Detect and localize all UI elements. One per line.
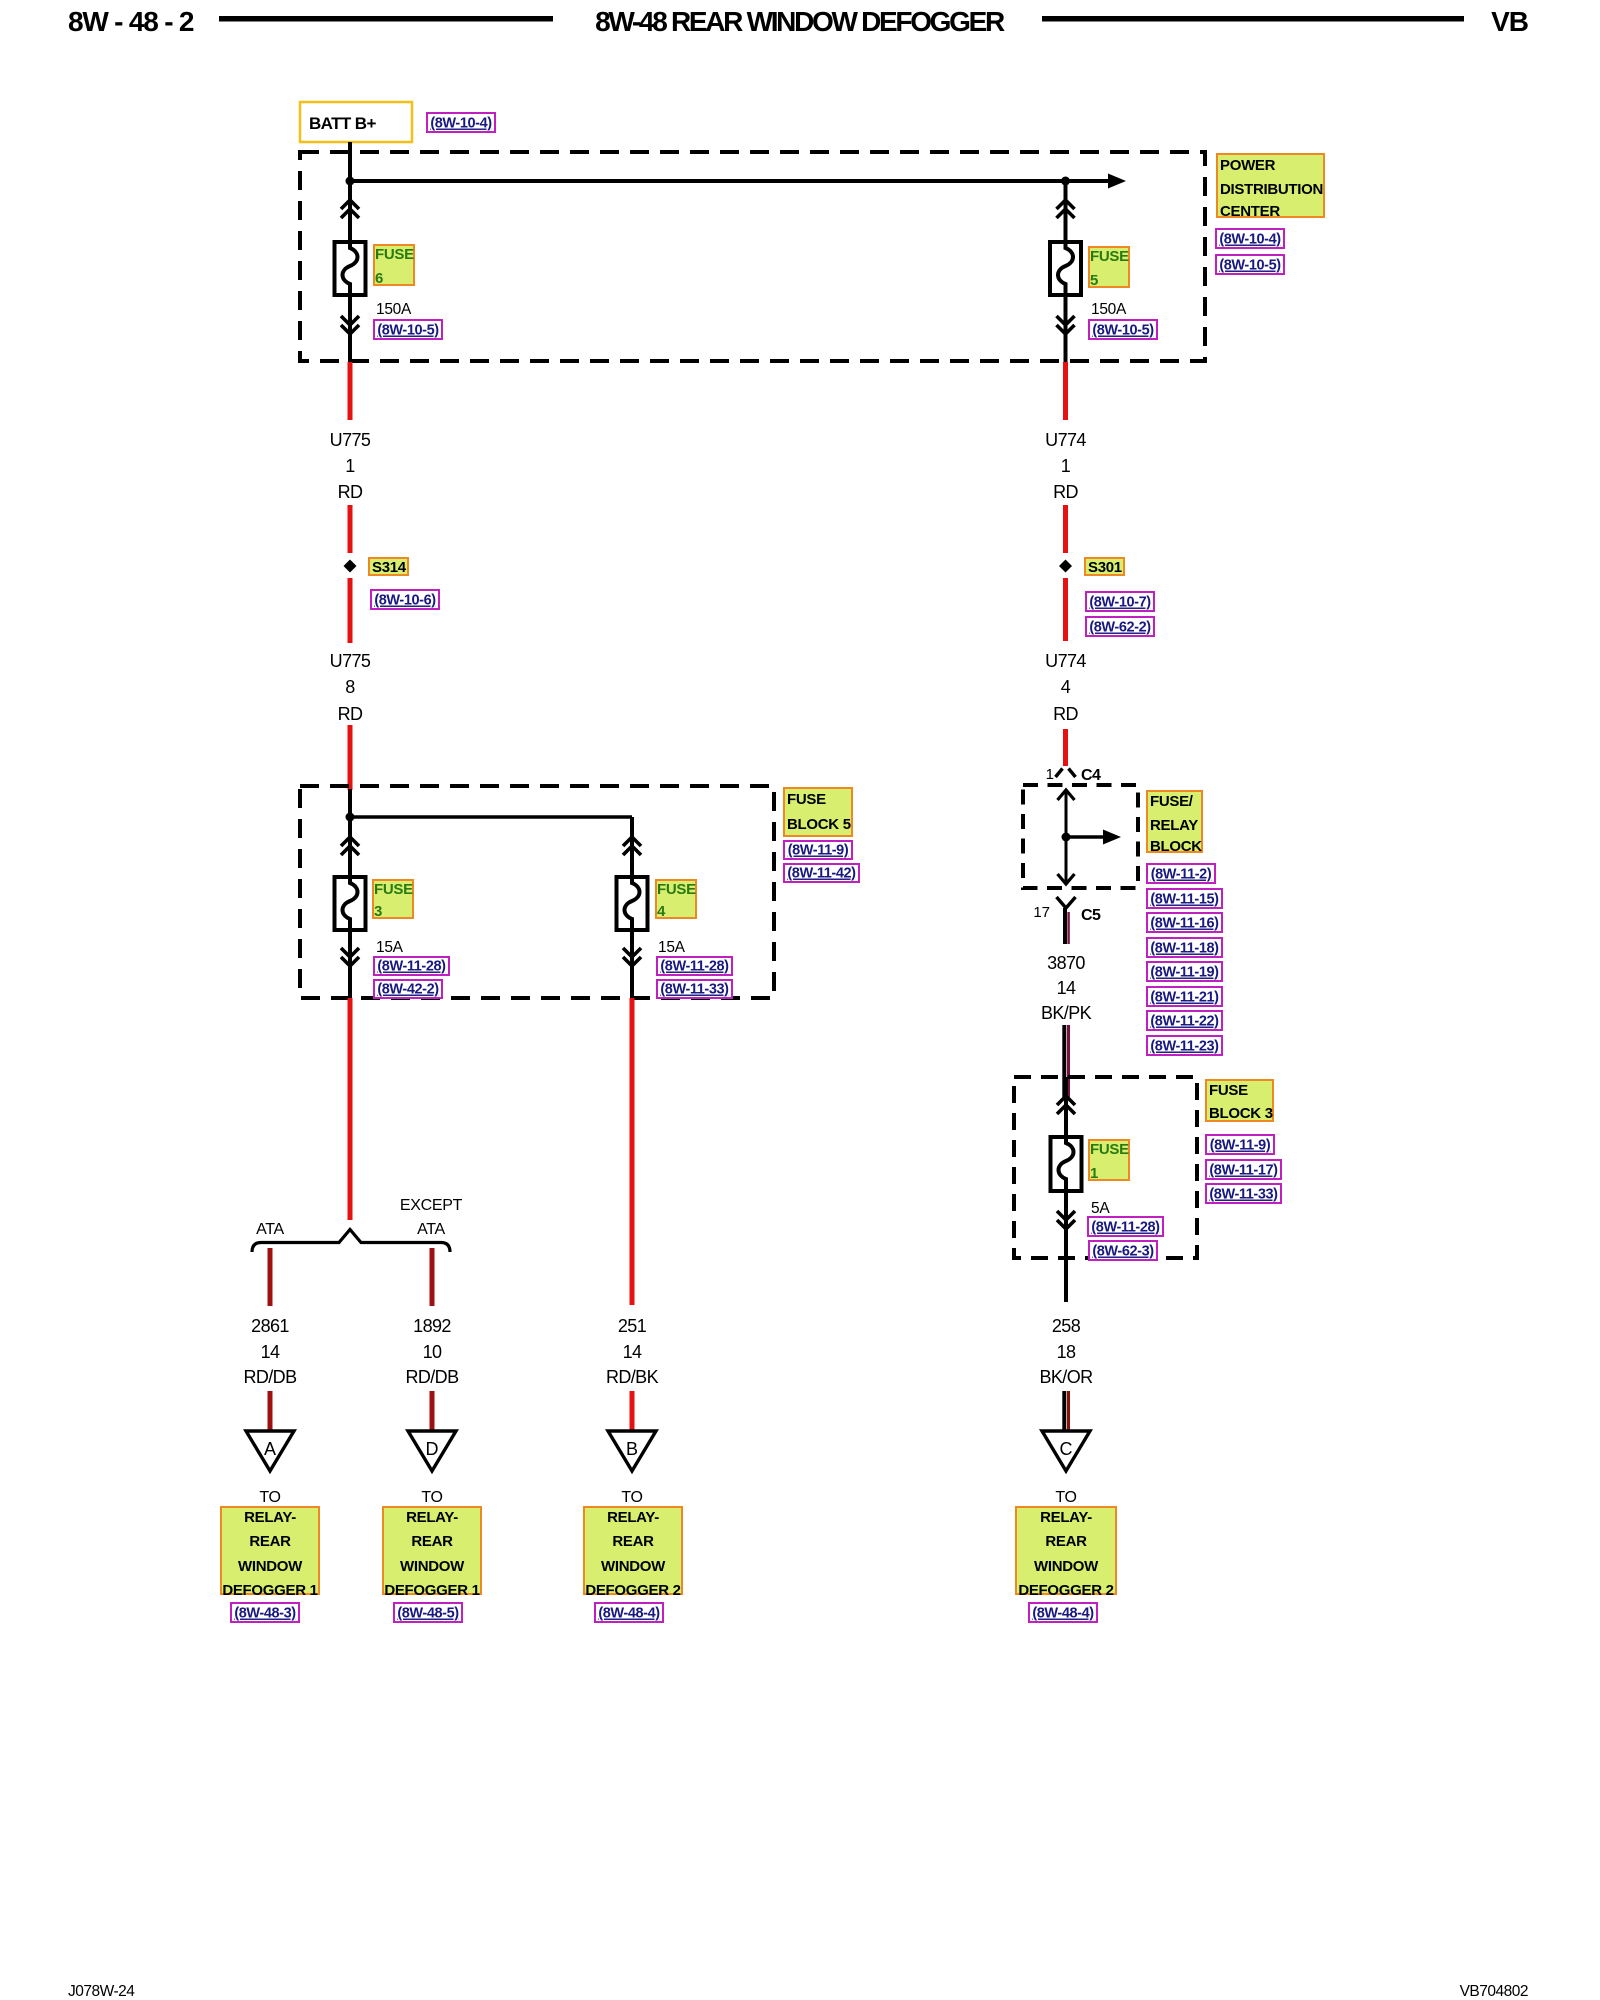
svg-text:(8W-11-21): (8W-11-21) — [1150, 990, 1219, 1006]
link (8W-48-3) col A — [231, 1603, 299, 1622]
svg-text:BK/PK: BK/PK — [1041, 1003, 1092, 1023]
svg-text:(8W-10-4): (8W-10-4) — [1219, 232, 1281, 248]
label POWER DISTRIBUTION CENTER — [1217, 154, 1324, 220]
svg-text:VB: VB — [1491, 6, 1528, 37]
junction dot in fuse block 5 — [346, 813, 355, 822]
fuse F1 — [1051, 1137, 1082, 1191]
svg-text:1: 1 — [1061, 456, 1071, 476]
fuse F4 — [617, 877, 648, 930]
svg-text:FUSE: FUSE — [787, 791, 826, 808]
fuse/relay block dashed box — [1023, 785, 1138, 888]
fuse F6 — [335, 242, 366, 295]
svg-text:U775: U775 — [330, 651, 371, 671]
wire BATT B+ down into PDC — [348, 142, 352, 184]
svg-text:(8W-62-3): (8W-62-3) — [1092, 1244, 1154, 1260]
svg-text:RELAY: RELAY — [1150, 817, 1198, 834]
svg-text:(8W-11-16): (8W-11-16) — [1150, 916, 1219, 932]
link (8W-48-5) col D — [394, 1603, 462, 1622]
svg-text:15A: 15A — [376, 939, 404, 956]
svg-text:ATA: ATA — [256, 1221, 284, 1238]
svg-text:RD/DB: RD/DB — [405, 1367, 459, 1387]
svg-text:B: B — [626, 1439, 638, 1459]
svg-text:(8W-11-18): (8W-11-18) — [1150, 941, 1219, 957]
fuse F3 — [335, 877, 366, 930]
svg-text:(8W-42-2): (8W-42-2) — [377, 982, 439, 998]
svg-text:EXCEPT: EXCEPT — [400, 1197, 463, 1214]
svg-text:(8W-11-22): (8W-11-22) — [1150, 1014, 1219, 1030]
svg-text:(8W-11-33): (8W-11-33) — [660, 982, 729, 998]
label FUSE 6 — [374, 245, 414, 287]
svg-text:15A: 15A — [658, 939, 686, 956]
link (8W-10-5) below fuse 6 — [374, 320, 442, 339]
svg-text:FUSE: FUSE — [657, 881, 696, 898]
svg-text:8W - 48 - 2: 8W - 48 - 2 — [68, 6, 194, 37]
value 150A for fuse 6 — [376, 301, 412, 318]
link (8W-11-42) at fuse block 5 — [784, 864, 859, 882]
connector chevrons above fuse 4 — [623, 837, 641, 855]
label 3870 14 BK/PK — [1041, 953, 1092, 1023]
svg-text:4: 4 — [1061, 677, 1071, 697]
connector triangle D — [408, 1431, 456, 1471]
svg-text:150A: 150A — [1091, 301, 1127, 318]
svg-text:ATA: ATA — [417, 1221, 445, 1238]
svg-text:WINDOW: WINDOW — [1034, 1558, 1099, 1575]
svg-text:(8W-11-9): (8W-11-9) — [1210, 1138, 1271, 1154]
label RELAY-REAR WINDOW DEFOGGER 2 col B — [584, 1507, 682, 1599]
wire U774 red segment 2 — [1063, 505, 1068, 553]
svg-text:RD/BK: RD/BK — [606, 1367, 659, 1387]
wire fuse 1 column lower — [1064, 1191, 1068, 1302]
label RELAY-REAR WINDOW DEFOGGER 1 col D — [383, 1507, 481, 1599]
link (8W-10-5) below fuse 5 — [1089, 320, 1157, 339]
wire U775 red segment 1 — [348, 362, 353, 420]
wire branch ATA — [268, 1248, 273, 1306]
svg-text:(8W-62-2): (8W-62-2) — [1089, 620, 1151, 636]
svg-text:TO: TO — [259, 1489, 280, 1506]
footer left code — [68, 1983, 135, 2000]
svg-text:1892: 1892 — [413, 1316, 451, 1336]
text TO col D — [421, 1489, 442, 1506]
link (8W-11-23) at fuse/relay block — [1147, 1036, 1222, 1055]
junction dot at fuse 5 — [1061, 177, 1070, 186]
wire to triangle B — [630, 1391, 635, 1431]
link (8W-48-4) col B — [595, 1603, 663, 1622]
wire fuse 5 column — [1064, 181, 1068, 363]
value 15A for fuse 3 — [376, 939, 404, 956]
svg-text:WINDOW: WINDOW — [400, 1558, 465, 1575]
wire U774 red segment 4 — [1063, 729, 1068, 766]
svg-text:RELAY-: RELAY- — [244, 1509, 296, 1526]
svg-text:(8W-11-28): (8W-11-28) — [377, 959, 446, 975]
wire to triangle D — [430, 1391, 435, 1431]
link (8W-62-3) below fuse 1 — [1089, 1241, 1157, 1260]
link (8W-10-4) under PDC label — [1216, 229, 1284, 248]
svg-text:S301: S301 — [1088, 559, 1122, 576]
svg-text:BLOCK 5: BLOCK 5 — [787, 816, 851, 833]
svg-text:REAR: REAR — [249, 1533, 291, 1550]
link (8W-11-21) at fuse/relay block — [1147, 987, 1222, 1006]
label C5 — [1081, 907, 1101, 924]
junction dot inside fuse/relay block — [1062, 833, 1071, 842]
text TO above relay defogger 2 right — [1055, 1489, 1076, 1506]
svg-text:RD: RD — [1053, 482, 1078, 502]
svg-text:REAR: REAR — [612, 1533, 654, 1550]
svg-text:DEFOGGER 2: DEFOGGER 2 — [585, 1582, 680, 1599]
svg-text:3870: 3870 — [1047, 953, 1085, 973]
svg-text:RELAY-: RELAY- — [406, 1509, 458, 1526]
svg-text:10: 10 — [423, 1342, 442, 1362]
link (8W-11-17) at fuse block 3 — [1206, 1160, 1281, 1179]
connector chevrons above fuse 3 — [341, 837, 359, 855]
label FUSE/RELAY BLOCK — [1147, 791, 1202, 855]
svg-text:(8W-10-7): (8W-10-7) — [1089, 595, 1151, 611]
link (8W-11-15) at fuse/relay block — [1147, 889, 1222, 908]
label FUSE 1 — [1089, 1140, 1129, 1182]
node BATT B+ terminal box — [300, 102, 412, 142]
svg-text:TO: TO — [621, 1489, 642, 1506]
svg-text:RELAY-: RELAY- — [1040, 1509, 1092, 1526]
wire red from fuse block 5 left — [348, 998, 353, 1220]
link (8W-11-28) below fuse 3 — [374, 957, 449, 975]
svg-text:D: D — [426, 1439, 439, 1459]
text ATA right — [417, 1221, 445, 1238]
pin 1 at C4 — [1046, 766, 1054, 783]
wire bus across PDC — [350, 179, 1066, 183]
connector C4 chevron — [1056, 769, 1076, 778]
wire below fuse 4 — [630, 930, 634, 998]
svg-text:RD: RD — [338, 704, 363, 724]
text ATA left — [256, 1221, 284, 1238]
svg-text:(8W-11-23): (8W-11-23) — [1150, 1039, 1219, 1055]
wire 3870 BK/PK segment — [1064, 1025, 1068, 1097]
svg-text:1: 1 — [1046, 766, 1054, 783]
link (8W-11-28) below fuse 4 — [657, 957, 732, 975]
svg-text:14: 14 — [261, 1342, 280, 1362]
svg-text:FUSE: FUSE — [375, 246, 414, 263]
connector triangle A — [246, 1431, 294, 1471]
svg-text:REAR: REAR — [1045, 1533, 1087, 1550]
wire fuse 1 column upper — [1064, 1077, 1068, 1140]
label C4 — [1081, 767, 1101, 784]
link (8W-11-9) at fuse block 3 — [1206, 1135, 1274, 1154]
label FUSE 3 — [373, 880, 413, 920]
fuse block 3 dashed box — [1014, 1077, 1197, 1258]
svg-text:REAR: REAR — [411, 1533, 453, 1550]
svg-text:TO: TO — [1055, 1489, 1076, 1506]
brace split symbol — [252, 1230, 450, 1253]
link (8W-11-33) below fuse 4 — [657, 980, 732, 998]
header page number — [68, 6, 194, 37]
svg-text:(8W-11-42): (8W-11-42) — [787, 866, 856, 882]
svg-text:(8W-10-5): (8W-10-5) — [1092, 323, 1154, 339]
svg-text:RD: RD — [1053, 704, 1078, 724]
svg-text:(8W-11-9): (8W-11-9) — [788, 843, 849, 859]
svg-text:CENTER: CENTER — [1220, 203, 1280, 220]
wire inside fuse/relay block vertical — [1058, 790, 1075, 884]
svg-text:WINDOW: WINDOW — [601, 1558, 666, 1575]
svg-text:14: 14 — [1057, 978, 1076, 998]
wire below fuse 3 — [348, 930, 352, 998]
svg-text:S314: S314 — [372, 559, 407, 576]
connector chevrons below fuse 3 — [341, 948, 359, 966]
value 15A for fuse 4 — [658, 939, 686, 956]
svg-text:(8W-10-5): (8W-10-5) — [1219, 258, 1281, 274]
link (8W-11-18) at fuse/relay block — [1147, 938, 1222, 957]
connector triangle C — [1042, 1431, 1090, 1471]
svg-text:251: 251 — [618, 1316, 647, 1336]
svg-text:POWER: POWER — [1220, 157, 1276, 174]
svg-text:1: 1 — [1090, 1165, 1098, 1182]
value 150A for fuse 5 — [1091, 301, 1127, 318]
wire into fuse 4 — [630, 817, 634, 879]
svg-text:FUSE/: FUSE/ — [1150, 793, 1194, 810]
svg-text:U775: U775 — [330, 430, 371, 450]
svg-text:3: 3 — [374, 903, 382, 920]
junction dot at fuse 6 — [346, 177, 355, 186]
svg-text:8W-48 REAR WINDOW DEFOGGER: 8W-48 REAR WINDOW DEFOGGER — [595, 6, 1005, 37]
svg-text:4: 4 — [657, 903, 666, 920]
connector triangle B — [608, 1431, 656, 1471]
svg-text:C5: C5 — [1081, 907, 1101, 924]
svg-text:1: 1 — [345, 456, 355, 476]
link (8W-10-6) at S314 — [371, 590, 439, 609]
wire U774 red segment 3 — [1063, 578, 1068, 641]
label FUSE 4 — [656, 880, 696, 920]
wire bus arrow to PDC interior — [1066, 174, 1127, 189]
link (8W-11-19) at fuse/relay block — [1147, 962, 1222, 981]
label S301 — [1085, 558, 1124, 576]
link (8W-11-28) below fuse 1 — [1088, 1217, 1163, 1236]
link (8W-11-33) at fuse block 3 — [1206, 1184, 1281, 1203]
svg-text:DEFOGGER 2: DEFOGGER 2 — [1018, 1582, 1113, 1599]
svg-text:RD/DB: RD/DB — [243, 1367, 297, 1387]
link (8W-11-16) at fuse/relay block — [1147, 913, 1222, 932]
wire branch EXCEPT ATA — [430, 1248, 435, 1306]
text EXCEPT — [400, 1197, 463, 1214]
wire 258 BK/OR segment — [1064, 1391, 1068, 1431]
link (8W-11-9) at fuse block 5 — [784, 841, 852, 859]
svg-text:258: 258 — [1052, 1316, 1081, 1336]
svg-text:(8W-11-15): (8W-11-15) — [1150, 892, 1219, 908]
svg-text:VB704802: VB704802 — [1460, 1983, 1528, 2000]
svg-text:(8W-48-5): (8W-48-5) — [397, 1606, 459, 1622]
svg-text:(8W-11-33): (8W-11-33) — [1209, 1187, 1278, 1203]
header title — [595, 6, 1005, 37]
label RELAY-REAR WINDOW DEFOGGER 1 col A — [221, 1507, 319, 1599]
svg-text:FUSE: FUSE — [1090, 248, 1129, 265]
connector chevrons above fuse 1 — [1057, 1096, 1075, 1114]
svg-text:RELAY-: RELAY- — [607, 1509, 659, 1526]
svg-text:DEFOGGER 1: DEFOGGER 1 — [222, 1582, 317, 1599]
connector chevrons below fuse 1 — [1057, 1211, 1075, 1229]
label U775 8 RD — [330, 651, 371, 724]
label FUSE BLOCK 5 — [784, 788, 852, 836]
wire fuse 6 column — [348, 181, 352, 363]
label U775 1 RD — [330, 430, 371, 502]
svg-text:BLOCK: BLOCK — [1150, 838, 1202, 855]
link (8W-62-2) at S301 — [1086, 617, 1154, 636]
label FUSE BLOCK 3 — [1206, 1080, 1273, 1122]
link (8W-10-5) under PDC label — [1216, 255, 1284, 274]
splice S301 — [1059, 560, 1072, 573]
svg-text:BATT B+: BATT B+ — [309, 114, 376, 133]
link (8W-11-2) at fuse/relay block — [1147, 864, 1215, 883]
svg-text:RD: RD — [338, 482, 363, 502]
label 251 14 RD/BK — [606, 1316, 659, 1387]
wire into fuse block 5 — [348, 789, 352, 879]
label FUSE 5 — [1089, 247, 1129, 289]
header VB — [1491, 6, 1528, 37]
label S314 — [369, 558, 408, 576]
svg-text:DISTRIBUTION: DISTRIBUTION — [1220, 181, 1323, 198]
svg-text:WINDOW: WINDOW — [238, 1558, 303, 1575]
connector chevrons below fuse 5 — [1057, 316, 1075, 334]
text TO col B — [621, 1489, 642, 1506]
wire U775 red segment 4 — [348, 725, 353, 790]
connector chevrons above fuse 5 — [1057, 200, 1075, 218]
connector C5 Y symbol — [1057, 897, 1076, 944]
svg-text:A: A — [264, 1439, 276, 1459]
wire red from fuse block 5 right — [630, 998, 635, 1305]
text TO col A — [259, 1489, 280, 1506]
svg-text:8: 8 — [345, 677, 355, 697]
svg-text:BK/OR: BK/OR — [1039, 1367, 1093, 1387]
svg-text:150A: 150A — [376, 301, 412, 318]
fuse F5 — [1050, 242, 1081, 295]
fuse block 5 dashed box — [300, 786, 774, 998]
svg-text:BLOCK 3: BLOCK 3 — [1209, 1105, 1273, 1122]
svg-text:U774: U774 — [1045, 651, 1086, 671]
label RELAY-REAR WINDOW DEFOGGER 2 right — [1016, 1507, 1116, 1599]
connector chevrons below fuse 6 — [341, 316, 359, 334]
label U774 4 RD — [1045, 651, 1086, 724]
svg-text:FUSE: FUSE — [374, 881, 413, 898]
wire to triangle A — [268, 1391, 273, 1431]
svg-text:DEFOGGER 1: DEFOGGER 1 — [384, 1582, 479, 1599]
wire U775 red segment 2 — [348, 505, 353, 553]
svg-text:(8W-48-4): (8W-48-4) — [598, 1606, 660, 1622]
label 258 18 BK/OR — [1039, 1316, 1093, 1387]
svg-text:18: 18 — [1057, 1342, 1076, 1362]
label 2861 14 RD/DB — [243, 1316, 297, 1387]
svg-text:5: 5 — [1090, 272, 1098, 289]
value 5A for fuse 1 — [1091, 1200, 1110, 1217]
svg-text:FUSE: FUSE — [1209, 1082, 1248, 1099]
svg-text:C: C — [1060, 1439, 1073, 1459]
svg-text:14: 14 — [623, 1342, 642, 1362]
svg-text:(8W-10-6): (8W-10-6) — [374, 593, 436, 609]
svg-text:FUSE: FUSE — [1090, 1141, 1129, 1158]
link (8W-10-7) at S301 — [1086, 592, 1154, 611]
svg-text:(8W-11-17): (8W-11-17) — [1209, 1163, 1278, 1179]
header rule right — [1042, 16, 1464, 22]
pin 17 at C5 — [1033, 904, 1050, 921]
svg-text:(8W-10-4): (8W-10-4) — [430, 116, 492, 132]
wire U774 red segment 1 — [1063, 362, 1068, 420]
wire U775 red segment 3 — [348, 578, 353, 643]
label U774 1 RD — [1045, 430, 1086, 502]
link (8W-11-22) at fuse/relay block — [1147, 1011, 1222, 1030]
label 1892 10 RD/DB — [405, 1316, 459, 1387]
svg-text:U774: U774 — [1045, 430, 1086, 450]
svg-text:(8W-48-3): (8W-48-3) — [234, 1606, 296, 1622]
connector chevrons below fuse 4 — [623, 948, 641, 966]
link (8W-42-2) below fuse 3 — [374, 980, 442, 998]
link (8W-10-4) next to BATT B+ — [427, 113, 495, 132]
svg-text:(8W-10-5): (8W-10-5) — [377, 323, 439, 339]
connector chevrons above fuse 6 — [341, 200, 359, 218]
svg-text:2861: 2861 — [251, 1316, 289, 1336]
svg-text:6: 6 — [375, 270, 383, 287]
wire bus to fuse 4 — [350, 815, 632, 819]
splice S314 — [344, 560, 357, 573]
svg-text:(8W-48-4): (8W-48-4) — [1032, 1606, 1094, 1622]
power distribution center dashed box — [300, 152, 1205, 361]
svg-text:J078W-24: J078W-24 — [68, 1983, 135, 2000]
link (8W-48-4) right column — [1029, 1603, 1097, 1622]
svg-text:(8W-11-19): (8W-11-19) — [1150, 965, 1219, 981]
svg-text:17: 17 — [1033, 904, 1050, 921]
footer right code — [1460, 1983, 1528, 2000]
wire arrow to fuse/relay block interior — [1066, 830, 1121, 845]
svg-text:(8W-11-28): (8W-11-28) — [660, 959, 729, 975]
svg-text:(8W-11-2): (8W-11-2) — [1151, 867, 1212, 883]
svg-text:(8W-11-28): (8W-11-28) — [1091, 1220, 1160, 1236]
header rule left — [219, 16, 553, 22]
svg-text:TO: TO — [421, 1489, 442, 1506]
svg-text:C4: C4 — [1081, 767, 1101, 784]
svg-text:5A: 5A — [1091, 1200, 1110, 1217]
